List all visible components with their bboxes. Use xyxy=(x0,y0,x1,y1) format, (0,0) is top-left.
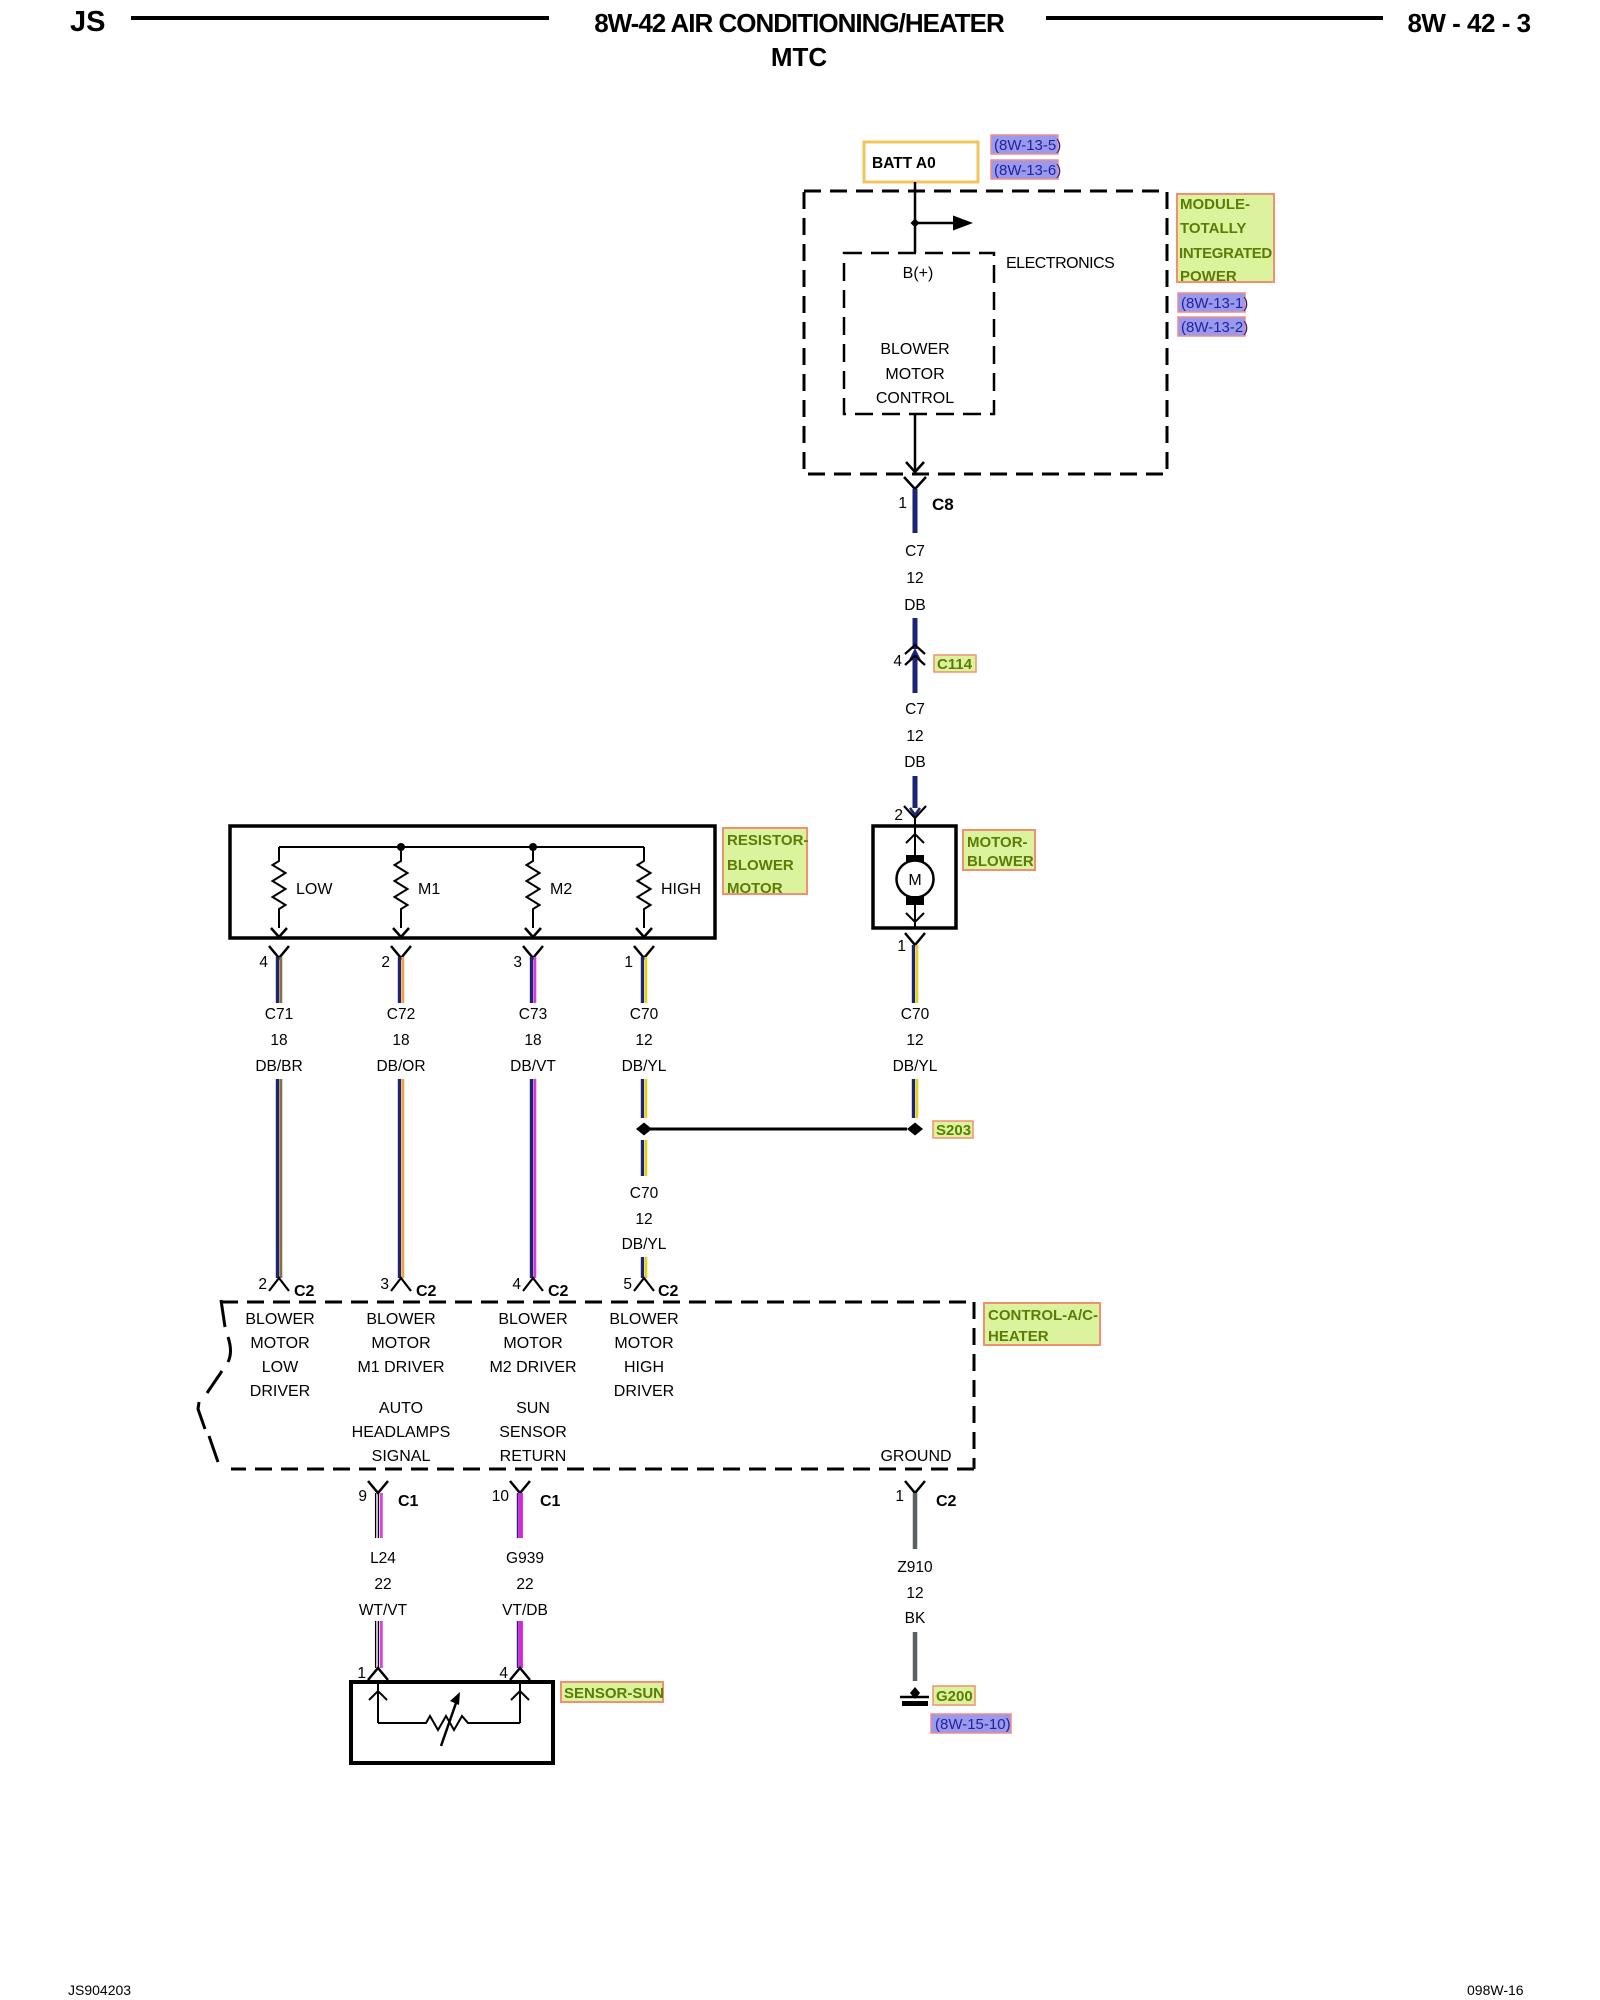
wire C73 lower xyxy=(531,1079,534,1278)
svg-text:C1: C1 xyxy=(540,1493,561,1510)
svg-text:2: 2 xyxy=(381,954,390,971)
svg-text:9: 9 xyxy=(358,1488,367,1505)
svg-text:DB/YL: DB/YL xyxy=(893,1058,938,1075)
svg-text:M2: M2 xyxy=(550,881,572,898)
splice S203 label xyxy=(933,1121,973,1139)
svg-text:CONTROL: CONTROL xyxy=(876,390,954,407)
connector C1 pin 10 fork xyxy=(492,1481,561,1510)
svg-text:2: 2 xyxy=(894,807,903,824)
resistor connector pin 4 fork xyxy=(259,946,289,971)
svg-text:WT/VT: WT/VT xyxy=(359,1602,408,1619)
motor connector pin 2 fork xyxy=(894,806,926,826)
resistor LOW xyxy=(271,847,333,937)
wire C70 18 DB/YL upper xyxy=(642,957,645,1003)
wire L24 22 WT/VT upper xyxy=(376,1493,382,1538)
svg-text:1: 1 xyxy=(895,1488,904,1505)
wire Z910 12 BK upper xyxy=(913,1493,918,1549)
MOTOR-BLOWER label xyxy=(963,830,1035,870)
svg-text:C2: C2 xyxy=(294,1283,315,1300)
resistor block R1 blower motor box xyxy=(230,826,715,938)
wire C70 below splice xyxy=(642,1140,645,1176)
sensor connector pin 4 fork xyxy=(499,1665,530,1682)
svg-text:C1: C1 xyxy=(398,1493,419,1510)
node junction dot M1 xyxy=(397,843,405,851)
svg-text:(8W-15-10): (8W-15-10) xyxy=(935,1716,1011,1733)
svg-text:1: 1 xyxy=(624,954,633,971)
control connector C2 pin 2 fork xyxy=(258,1276,314,1300)
pin label blower motor M2 driver xyxy=(489,1311,576,1376)
wire C73 18 DB/VT upper xyxy=(531,957,534,1003)
svg-text:(8W-13-2): (8W-13-2) xyxy=(1181,319,1248,336)
wire label C70 12 DB/YL xyxy=(622,1006,667,1075)
svg-text:MOTOR: MOTOR xyxy=(371,1335,430,1352)
SENSOR-SUN label xyxy=(561,1682,664,1702)
svg-text:(8W-13-5): (8W-13-5) xyxy=(994,137,1061,154)
svg-text:MOTOR: MOTOR xyxy=(885,366,944,383)
svg-text:C70: C70 xyxy=(630,1006,659,1023)
svg-text:TOTALLY: TOTALLY xyxy=(1180,220,1246,237)
resistor connector pin 3 fork xyxy=(513,946,543,971)
sensor lead pin 1 with chevron xyxy=(369,1682,387,1723)
wire G939 lower xyxy=(518,1621,521,1668)
svg-text:JS: JS xyxy=(70,6,105,38)
pin label blower motor M1 driver xyxy=(357,1311,444,1376)
svg-text:12: 12 xyxy=(635,1211,652,1228)
svg-text:12: 12 xyxy=(635,1032,652,1049)
control module U2 A/C heater dashed box xyxy=(221,1302,974,1469)
wire module output xyxy=(914,414,917,471)
svg-text:BLOWER: BLOWER xyxy=(609,1311,678,1328)
wire batt A0 feed into module xyxy=(914,182,917,253)
sensor connector pin 1 fork xyxy=(357,1665,388,1682)
wire C70 to splice xyxy=(642,1079,645,1118)
svg-text:12: 12 xyxy=(906,728,923,745)
reference label (8W-13-2) xyxy=(1178,317,1248,336)
RESISTOR-BLOWER MOTOR label xyxy=(723,828,808,897)
wire C72 18 DB/OR upper xyxy=(399,957,402,1003)
svg-text:HEATER: HEATER xyxy=(988,1328,1049,1345)
motor internal lead with up chevron xyxy=(914,826,916,858)
svg-text:Z910: Z910 xyxy=(897,1559,933,1576)
pin label auto headlamps signal xyxy=(352,1400,451,1465)
svg-text:M1 DRIVER: M1 DRIVER xyxy=(357,1359,444,1376)
svg-text:098W-16: 098W-16 xyxy=(1467,1982,1524,1998)
ground G200 symbol xyxy=(900,1687,929,1704)
svg-text:C8: C8 xyxy=(932,495,954,514)
svg-text:(8W-13-1): (8W-13-1) xyxy=(1181,295,1248,312)
svg-text:MOTOR: MOTOR xyxy=(503,1335,562,1352)
svg-text:SIGNAL: SIGNAL xyxy=(372,1448,431,1465)
header right rule xyxy=(1046,16,1383,20)
motor brush bottom xyxy=(906,896,924,905)
svg-text:BLOWER: BLOWER xyxy=(967,853,1034,870)
svg-text:MTC: MTC xyxy=(771,42,828,72)
svg-text:SENSOR: SENSOR xyxy=(499,1424,567,1441)
wire label C70 12 DB/YL xyxy=(893,1006,938,1075)
svg-text:DB/VT: DB/VT xyxy=(510,1058,556,1075)
resistor M1 xyxy=(393,847,440,937)
svg-text:5: 5 xyxy=(623,1276,632,1293)
wire C72 lower xyxy=(399,1079,402,1278)
svg-text:M: M xyxy=(908,872,921,889)
wire label C7 12 DB xyxy=(904,701,926,771)
connector C114 pin 4 xyxy=(893,645,976,673)
blower motor control text xyxy=(876,341,954,407)
svg-text:B(+): B(+) xyxy=(903,265,934,282)
svg-text:C2: C2 xyxy=(548,1283,569,1300)
resistor HIGH xyxy=(636,847,701,937)
svg-text:1: 1 xyxy=(897,938,906,955)
module U1 totally integrated power outer dashed box xyxy=(804,191,1167,474)
wire label L24 22 WT/VT xyxy=(359,1550,408,1619)
svg-text:POWER: POWER xyxy=(1180,268,1237,285)
svg-text:(8W-13-6): (8W-13-6) xyxy=(994,162,1061,179)
svg-text:SUN: SUN xyxy=(516,1400,550,1417)
wire Z910 lower xyxy=(913,1632,918,1681)
pin label blower motor low driver xyxy=(245,1311,314,1400)
svg-text:C73: C73 xyxy=(519,1006,547,1023)
svg-text:12: 12 xyxy=(906,1032,923,1049)
wire label C71 18 DB/BR xyxy=(255,1006,302,1075)
svg-text:C114: C114 xyxy=(937,656,973,673)
sensor-sun RT1 box xyxy=(351,1682,553,1763)
sensor lead pin 4 with chevron xyxy=(511,1682,529,1723)
pin label blower motor high driver xyxy=(609,1311,678,1400)
svg-text:2: 2 xyxy=(258,1276,267,1293)
svg-text:C2: C2 xyxy=(416,1283,437,1300)
svg-text:12: 12 xyxy=(906,1585,923,1602)
svg-text:18: 18 xyxy=(524,1032,541,1049)
node junction dot xyxy=(911,219,920,228)
wire C71 18 DB/BR upper xyxy=(277,957,280,1003)
wire label C72 18 DB/OR xyxy=(376,1006,425,1075)
svg-text:DB: DB xyxy=(904,754,926,771)
svg-text:C71: C71 xyxy=(265,1006,293,1023)
wire label C73 18 DB/VT xyxy=(510,1006,556,1075)
svg-text:MOTOR: MOTOR xyxy=(614,1335,673,1352)
wire label G939 22 VT/DB xyxy=(502,1550,548,1619)
svg-text:VT/DB: VT/DB xyxy=(502,1602,548,1619)
svg-text:DRIVER: DRIVER xyxy=(614,1383,674,1400)
ground G200 label xyxy=(933,1686,975,1705)
svg-text:8W-42 AIR CONDITIONING/HEATER: 8W-42 AIR CONDITIONING/HEATER xyxy=(594,8,1005,38)
svg-text:GROUND: GROUND xyxy=(880,1448,951,1465)
reference label (8W-15-10) xyxy=(931,1714,1011,1733)
svg-text:L24: L24 xyxy=(370,1550,396,1567)
svg-text:C7: C7 xyxy=(905,543,925,560)
svg-text:LOW: LOW xyxy=(296,881,333,898)
wire segment to splice S203 xyxy=(913,1079,916,1118)
wire label Z910 12 BK xyxy=(897,1559,933,1627)
control connector C2 pin 3 fork xyxy=(380,1276,436,1300)
svg-text:DB/YL: DB/YL xyxy=(622,1058,667,1075)
svg-text:LOW: LOW xyxy=(262,1359,299,1376)
motor brush top xyxy=(906,855,924,864)
svg-text:DB/BR: DB/BR xyxy=(255,1058,302,1075)
resistor M2 xyxy=(525,847,572,937)
svg-text:CONTROL-A/C-: CONTROL-A/C- xyxy=(988,1307,1098,1324)
svg-text:HEADLAMPS: HEADLAMPS xyxy=(352,1424,451,1441)
svg-text:G200: G200 xyxy=(936,1688,973,1705)
svg-text:BK: BK xyxy=(905,1610,926,1627)
svg-text:M1: M1 xyxy=(418,881,440,898)
svg-text:3: 3 xyxy=(380,1276,389,1293)
svg-text:MOTOR-: MOTOR- xyxy=(967,834,1028,851)
resistor connector pin 1 fork xyxy=(624,946,654,971)
svg-text:10: 10 xyxy=(492,1488,510,1505)
wire segment to C114 xyxy=(913,618,918,649)
reference label (8W-13-6) xyxy=(991,160,1061,179)
pin label sun sensor return xyxy=(499,1400,567,1465)
svg-text:DRIVER: DRIVER xyxy=(250,1383,310,1400)
wire internal feed arrow xyxy=(915,222,956,225)
control box torn left edge xyxy=(198,1300,231,1462)
svg-text:18: 18 xyxy=(270,1032,287,1049)
svg-text:BLOWER: BLOWER xyxy=(245,1311,314,1328)
reference label (8W-13-5) xyxy=(991,135,1061,154)
fuse BATT A0 box xyxy=(864,142,978,182)
blower motor control inner dashed box xyxy=(844,253,994,414)
svg-text:MOTOR: MOTOR xyxy=(250,1335,309,1352)
CONTROL-A/C-HEATER label xyxy=(984,1303,1100,1345)
reference label (8W-13-1) xyxy=(1178,293,1248,312)
svg-text:18: 18 xyxy=(392,1032,409,1049)
wire label C70 12 DB/YL second xyxy=(622,1185,667,1253)
svg-text:MOTOR: MOTOR xyxy=(727,880,783,897)
svg-text:8W - 42 - 3: 8W - 42 - 3 xyxy=(1407,8,1530,38)
node junction dot M2 xyxy=(529,843,537,851)
wire C71 lower xyxy=(277,1079,280,1278)
svg-text:DB/OR: DB/OR xyxy=(376,1058,425,1075)
svg-text:BLOWER: BLOWER xyxy=(498,1311,567,1328)
svg-text:4: 4 xyxy=(259,954,268,971)
svg-text:AUTO: AUTO xyxy=(379,1400,423,1417)
wire G939 22 VT/DB upper xyxy=(518,1493,521,1538)
header left rule xyxy=(131,16,549,20)
svg-text:BLOWER: BLOWER xyxy=(880,341,949,358)
svg-text:4: 4 xyxy=(499,1665,508,1682)
svg-text:4: 4 xyxy=(893,653,902,670)
motor internal lead with down chevron xyxy=(914,905,916,928)
svg-text:ELECTRONICS: ELECTRONICS xyxy=(1006,255,1114,272)
wire label C7 12 DB xyxy=(904,543,926,614)
motor connector pin 1 fork xyxy=(897,933,925,955)
svg-text:DB: DB xyxy=(904,597,926,614)
svg-text:22: 22 xyxy=(374,1576,391,1593)
svg-text:1: 1 xyxy=(357,1665,366,1682)
svg-text:RETURN: RETURN xyxy=(500,1448,567,1465)
svg-text:C70: C70 xyxy=(630,1185,659,1202)
svg-text:C2: C2 xyxy=(658,1283,679,1300)
wire C7 12 DB lower segment xyxy=(913,658,918,693)
svg-text:S203: S203 xyxy=(936,1122,971,1139)
svg-text:BLOWER: BLOWER xyxy=(366,1311,435,1328)
svg-text:SENSOR-SUN: SENSOR-SUN xyxy=(564,1685,664,1702)
splice junction diamond left xyxy=(636,1123,652,1136)
svg-text:4: 4 xyxy=(512,1276,521,1293)
resistor feed bus xyxy=(279,846,644,848)
svg-text:HIGH: HIGH xyxy=(661,881,701,898)
resistor connector pin 2 fork xyxy=(381,946,411,971)
svg-text:12: 12 xyxy=(906,570,923,587)
wire C70 bottom xyxy=(642,1257,645,1278)
svg-text:HIGH: HIGH xyxy=(624,1359,664,1376)
svg-text:C70: C70 xyxy=(901,1006,930,1023)
control connector C2 pin 5 fork xyxy=(623,1276,678,1300)
wire segment to motor xyxy=(913,776,918,808)
splice S203 junction diamond xyxy=(907,1123,923,1136)
svg-text:C72: C72 xyxy=(387,1006,415,1023)
motor body circle xyxy=(897,861,934,898)
splice bus wire xyxy=(644,1128,907,1131)
svg-text:MODULE-: MODULE- xyxy=(1180,196,1250,213)
svg-text:INTEGRATED: INTEGRATED xyxy=(1179,245,1272,262)
svg-text:M2 DRIVER: M2 DRIVER xyxy=(489,1359,576,1376)
control connector C2 pin 4 fork xyxy=(512,1276,568,1300)
wire L24 lower xyxy=(376,1621,382,1668)
photoresistor RT1 element xyxy=(378,1692,520,1746)
svg-text:1: 1 xyxy=(898,495,907,512)
svg-text:DB/YL: DB/YL xyxy=(622,1236,667,1253)
svg-text:C7: C7 xyxy=(905,701,925,718)
svg-text:G939: G939 xyxy=(506,1550,544,1567)
wire C70 12 DB/YL from motor xyxy=(913,945,916,1003)
svg-text:22: 22 xyxy=(516,1576,533,1593)
connector C1 pin 9 fork xyxy=(358,1481,418,1510)
wire C7 12 DB upper segment xyxy=(913,489,918,533)
svg-text:3: 3 xyxy=(513,954,522,971)
connector C2 pin 1 fork ground xyxy=(895,1481,956,1510)
svg-text:RESISTOR-: RESISTOR- xyxy=(727,832,808,849)
svg-text:BATT A0: BATT A0 xyxy=(872,155,936,172)
motor M1 blower box xyxy=(873,826,956,928)
svg-text:JS904203: JS904203 xyxy=(68,1982,131,1998)
MODULE-TOTALLY INTEGRATED POWER label xyxy=(1177,194,1274,285)
svg-text:BLOWER: BLOWER xyxy=(727,857,794,874)
svg-text:C2: C2 xyxy=(936,1493,957,1510)
connector C8 pin 1 fork xyxy=(898,477,953,514)
